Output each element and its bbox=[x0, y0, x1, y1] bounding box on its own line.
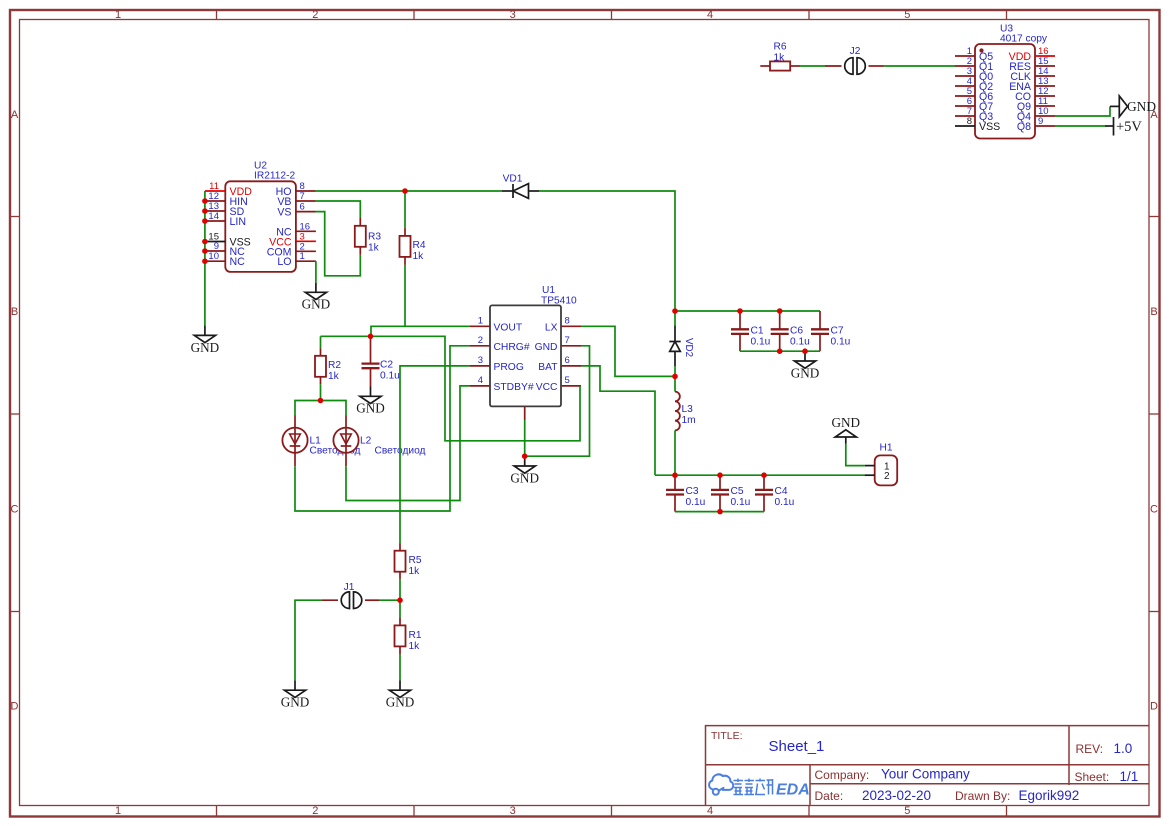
svg-text:A: A bbox=[11, 109, 19, 121]
svg-text:Egorik992: Egorik992 bbox=[1019, 788, 1080, 803]
IC U1 body bbox=[490, 305, 561, 406]
label J1 bbox=[344, 582, 355, 593]
U1 bottom pin bbox=[524, 406, 526, 420]
svg-text:2: 2 bbox=[884, 471, 890, 482]
svg-text:R3: R3 bbox=[368, 232, 381, 243]
label R1 1k bbox=[409, 630, 422, 652]
svg-text:5: 5 bbox=[565, 375, 570, 386]
label L2 Светодиод bbox=[360, 436, 426, 457]
H1 pin numbers bbox=[884, 461, 890, 482]
U3 right pin numbers bbox=[1038, 46, 1049, 127]
label C1 0.1u bbox=[751, 326, 771, 348]
svg-text:VCC: VCC bbox=[536, 382, 558, 393]
label U1 TP5410 bbox=[541, 285, 577, 307]
ground GND above H1 bbox=[832, 415, 861, 444]
label VD1 bbox=[503, 174, 523, 185]
svg-text:GND: GND bbox=[832, 415, 861, 430]
svg-text:IR2112-2: IR2112-2 bbox=[254, 170, 295, 181]
svg-text:1: 1 bbox=[300, 251, 305, 262]
junction dot VD2 anode node bbox=[672, 374, 678, 380]
svg-text:0.1u: 0.1u bbox=[380, 370, 400, 381]
capacitor C5 bbox=[711, 475, 729, 511]
connector J1 bbox=[322, 592, 380, 609]
H1 pin stubs bbox=[865, 466, 875, 476]
resistor R6 bbox=[760, 61, 800, 70]
svg-text:GND: GND bbox=[510, 470, 539, 485]
capacitor C7 bbox=[811, 311, 829, 351]
ground GND under U2 LO bbox=[302, 292, 331, 311]
svg-text:1k: 1k bbox=[328, 371, 340, 382]
U1 right pin names bbox=[535, 322, 559, 393]
svg-text:U1: U1 bbox=[542, 285, 555, 296]
svg-text:J2: J2 bbox=[850, 46, 861, 57]
wire C3 C5 C4 bottom rail bbox=[675, 511, 764, 513]
U1 right pin numbers bbox=[565, 315, 570, 386]
ground GND under U1 bbox=[510, 456, 539, 485]
svg-text:C2: C2 bbox=[380, 359, 393, 370]
svg-text:6: 6 bbox=[565, 355, 570, 366]
svg-text:GND: GND bbox=[356, 401, 385, 416]
LED L2 bbox=[333, 416, 358, 467]
junction dot C4 top bbox=[761, 472, 767, 478]
U3 left pin names bbox=[979, 51, 1000, 133]
wire R2 top bbox=[320, 336, 322, 348]
wire VD2 node to L3 bbox=[674, 376, 676, 391]
U3 right pin stubs 16-9 bbox=[1035, 56, 1055, 126]
label VD2 bbox=[683, 338, 694, 357]
svg-text:9: 9 bbox=[1038, 116, 1043, 127]
wire U3 Q8 to +5V bbox=[1055, 125, 1105, 127]
svg-text:C7: C7 bbox=[831, 326, 844, 337]
power flag +5V bbox=[1105, 117, 1142, 136]
svg-text:8: 8 bbox=[565, 315, 570, 326]
resistor R3 bbox=[355, 217, 366, 254]
wire VD1 to node top-right bbox=[539, 191, 675, 325]
svg-text:GND: GND bbox=[386, 695, 415, 710]
wire R4 top bbox=[404, 191, 406, 228]
svg-text:7: 7 bbox=[565, 335, 570, 346]
wire U3 Q4 to GND bbox=[1055, 106, 1110, 116]
junction dot C6 top bbox=[777, 308, 783, 314]
svg-text:VOUT: VOUT bbox=[494, 322, 523, 333]
wire R1 to GND bbox=[399, 654, 401, 680]
svg-text:BAT: BAT bbox=[538, 362, 558, 373]
junction dot C1 top bbox=[737, 308, 743, 314]
svg-text:1m: 1m bbox=[682, 415, 696, 426]
resistor R4 bbox=[400, 228, 411, 265]
title block Company bbox=[815, 767, 971, 782]
U1 left pin stubs bbox=[470, 326, 490, 386]
connector H1 body bbox=[875, 455, 898, 485]
svg-text:10: 10 bbox=[208, 251, 219, 262]
svg-text:H1: H1 bbox=[879, 443, 892, 454]
svg-text:C: C bbox=[11, 503, 19, 515]
svg-text:4: 4 bbox=[707, 805, 713, 817]
title block frame bbox=[706, 726, 1149, 806]
ground GND under U2 left bbox=[191, 335, 220, 354]
junction dot caps GND stem bbox=[802, 348, 808, 354]
junction dot C6 bottom bbox=[777, 348, 783, 354]
inductor L3 bbox=[675, 392, 680, 431]
title block TITLE label bbox=[711, 730, 743, 742]
ground GND bottom left bbox=[281, 680, 310, 709]
svg-text:B: B bbox=[1150, 306, 1157, 318]
ground GND under C2 bbox=[356, 387, 385, 416]
svg-text:VS: VS bbox=[277, 207, 291, 219]
svg-text:Sheet_1: Sheet_1 bbox=[769, 738, 825, 755]
IC U3 body bbox=[975, 44, 1035, 139]
U2 right pin names bbox=[267, 186, 292, 268]
wire LED anode rail bbox=[295, 401, 346, 416]
junction dot R4 top bbox=[402, 188, 408, 194]
U1 left pin numbers bbox=[478, 315, 483, 386]
junction dot L3 bottom bbox=[672, 472, 678, 478]
wire R3 to U2 VS bbox=[316, 212, 360, 276]
svg-text:GND: GND bbox=[791, 365, 820, 380]
svg-text:C1: C1 bbox=[751, 326, 764, 337]
svg-text:VD1: VD1 bbox=[503, 174, 523, 185]
svg-text:VD2: VD2 bbox=[683, 338, 694, 357]
svg-text:GND: GND bbox=[191, 340, 220, 355]
svg-text:PROG: PROG bbox=[494, 362, 524, 373]
ground GND under R1 bbox=[386, 680, 415, 709]
label R4 1k bbox=[413, 240, 426, 262]
svg-text:Date:: Date: bbox=[815, 789, 844, 803]
wire U2 LO to GND bbox=[315, 261, 317, 292]
title block Date / Drawn By bbox=[815, 788, 1080, 803]
junction dot C5 top bbox=[717, 472, 723, 478]
svg-text:TP5410: TP5410 bbox=[541, 295, 577, 306]
svg-text:Company:: Company: bbox=[815, 768, 870, 782]
wire C3 C5 C4 top rail to H1 pin2 bbox=[655, 474, 865, 476]
capacitor C3 bbox=[666, 475, 684, 511]
wire U1 PROG to R5 bbox=[400, 366, 470, 544]
capacitor C2 bbox=[362, 336, 380, 386]
power flag GND right bbox=[1110, 96, 1156, 117]
svg-text:0.1u: 0.1u bbox=[775, 497, 795, 508]
svg-text:1k: 1k bbox=[368, 243, 380, 254]
svg-text:C5: C5 bbox=[731, 486, 744, 497]
svg-text:0.1u: 0.1u bbox=[731, 497, 751, 508]
svg-text:1: 1 bbox=[478, 315, 483, 326]
svg-text:2: 2 bbox=[312, 9, 318, 21]
svg-text:0.1u: 0.1u bbox=[751, 337, 771, 348]
svg-text:2: 2 bbox=[478, 335, 483, 346]
wire U2 VB to R3 bbox=[316, 201, 360, 217]
label C2 0.1u bbox=[380, 359, 400, 381]
svg-text:14: 14 bbox=[208, 211, 219, 222]
junction dot J1 R5 R1 bbox=[397, 597, 403, 603]
label J2 bbox=[850, 46, 861, 57]
svg-text:6: 6 bbox=[300, 202, 305, 213]
resistor R5 bbox=[395, 544, 406, 579]
U2 left pin numbers bbox=[208, 181, 219, 262]
svg-text:C3: C3 bbox=[686, 486, 699, 497]
svg-text:TITLE:: TITLE: bbox=[711, 730, 743, 742]
label L1 Светодиод bbox=[310, 436, 361, 457]
svg-text:R2: R2 bbox=[328, 360, 341, 371]
svg-text:3: 3 bbox=[510, 9, 516, 21]
capacitor C6 bbox=[771, 311, 789, 351]
svg-text:EDA: EDA bbox=[776, 782, 810, 799]
svg-text:R4: R4 bbox=[413, 240, 426, 251]
svg-text:+5V: +5V bbox=[1116, 119, 1142, 135]
junction dot node VD2 top bbox=[672, 308, 678, 314]
ground GND under C6 C7 bbox=[791, 351, 820, 380]
wire U1 LX to VD2 anode bbox=[581, 326, 675, 376]
svg-text:GND: GND bbox=[302, 297, 331, 312]
svg-text:C6: C6 bbox=[790, 326, 803, 337]
svg-text:R1: R1 bbox=[409, 630, 422, 641]
wire C1 C6 C7 top rail bbox=[675, 310, 820, 312]
svg-text:B: B bbox=[11, 306, 18, 318]
label C5 0.1u bbox=[731, 486, 751, 508]
svg-text:R6: R6 bbox=[774, 42, 787, 53]
svg-text:1.0: 1.0 bbox=[1114, 741, 1133, 756]
svg-text:L3: L3 bbox=[682, 404, 694, 415]
svg-text:1k: 1k bbox=[409, 566, 421, 577]
label U2 IR2112-2 bbox=[254, 161, 295, 182]
label L3 1m bbox=[682, 404, 696, 426]
svg-text:3: 3 bbox=[478, 355, 483, 366]
label U3 4017 copy bbox=[1000, 24, 1048, 45]
U2 right pin numbers bbox=[300, 181, 311, 262]
svg-text:1k: 1k bbox=[413, 251, 425, 262]
svg-text:0.1u: 0.1u bbox=[831, 337, 851, 348]
title block REV bbox=[1076, 741, 1133, 756]
svg-text:LX: LX bbox=[545, 322, 558, 333]
svg-text:LO: LO bbox=[277, 256, 291, 268]
label C6 0.1u bbox=[790, 326, 810, 348]
junction dot C2 top bbox=[368, 334, 374, 340]
junction dot C5 bottom bbox=[717, 509, 723, 515]
svg-text:2: 2 bbox=[312, 805, 318, 817]
svg-text:STDBY#: STDBY# bbox=[494, 382, 534, 393]
svg-text:2023-02-20: 2023-02-20 bbox=[862, 788, 931, 803]
wire J1 right to node bbox=[380, 599, 400, 601]
svg-text:Sheet:: Sheet: bbox=[1075, 770, 1110, 784]
label R6 1k bbox=[774, 42, 787, 64]
svg-text:5: 5 bbox=[904, 805, 910, 817]
svg-text:GND: GND bbox=[535, 342, 558, 353]
wire J1 left to GND bbox=[295, 600, 322, 680]
wire U1 STDBY# to L2 bbox=[346, 386, 470, 501]
wire R5 to J1 node bbox=[399, 579, 401, 600]
wire R6 to J2 bbox=[800, 65, 825, 67]
label H1 bbox=[879, 443, 892, 454]
junction dot U1 GND bbox=[522, 453, 528, 459]
svg-text:NC: NC bbox=[230, 256, 246, 268]
svg-text:1: 1 bbox=[115, 9, 121, 21]
U2 left pin stubs bbox=[205, 191, 225, 261]
svg-text:C4: C4 bbox=[775, 486, 788, 497]
IC U2 body bbox=[225, 181, 296, 272]
U1 left pin names bbox=[494, 322, 534, 393]
label R3 1k bbox=[368, 232, 381, 254]
svg-text:7: 7 bbox=[300, 191, 305, 202]
wire U1 VOUT bbox=[371, 326, 470, 336]
diode VD2 bbox=[669, 325, 680, 366]
junction dot R2 bottom bbox=[318, 398, 324, 404]
svg-text:1k: 1k bbox=[774, 53, 786, 64]
svg-text:C: C bbox=[1150, 503, 1158, 515]
label R5 1k bbox=[409, 555, 422, 577]
wire U1 BAT to C-rail bbox=[581, 366, 655, 475]
label C7 0.1u bbox=[831, 326, 851, 348]
svg-text:GND: GND bbox=[281, 695, 310, 710]
svg-text:0.1u: 0.1u bbox=[686, 497, 706, 508]
U3 left pin numbers bbox=[967, 46, 972, 127]
svg-text:LIN: LIN bbox=[230, 216, 247, 228]
svg-text:1k: 1k bbox=[409, 641, 421, 652]
capacitor C4 bbox=[755, 475, 773, 511]
svg-text:J1: J1 bbox=[344, 582, 355, 593]
svg-text:GND: GND bbox=[1127, 99, 1156, 114]
svg-text:Q8: Q8 bbox=[1017, 121, 1031, 133]
svg-text:5: 5 bbox=[904, 9, 910, 21]
svg-text:Drawn By:: Drawn By: bbox=[955, 789, 1010, 803]
wire VD2 to LX node bbox=[674, 366, 676, 376]
svg-text:4: 4 bbox=[707, 9, 713, 21]
wire U1 bottom to GND bbox=[524, 420, 526, 456]
U1 right pin stubs bbox=[561, 326, 581, 386]
wire J2 to U3 pin 2 bbox=[884, 65, 955, 67]
title block Sheet 1/1 bbox=[1075, 769, 1139, 784]
connector J2 bbox=[825, 58, 884, 75]
wire L3 to C-rail bbox=[674, 430, 676, 475]
wire H1 pin1 to GND bbox=[846, 444, 865, 466]
wire C1 C6 C7 bottom rail bbox=[740, 350, 820, 352]
wire R4 bottom bbox=[404, 265, 406, 326]
wire U2 left pins bus to GND bbox=[204, 191, 206, 335]
svg-text:VSS: VSS bbox=[979, 121, 1000, 133]
svg-text:4: 4 bbox=[478, 375, 483, 386]
wire R2 bottom bbox=[320, 384, 322, 400]
svg-text:D: D bbox=[1150, 701, 1158, 713]
label R2 1k bbox=[328, 360, 341, 382]
wire U1 GND pin7 bbox=[525, 346, 590, 456]
svg-text:1: 1 bbox=[115, 805, 121, 817]
resistor R1 bbox=[395, 600, 406, 654]
wire VOUT horizontal bbox=[321, 336, 581, 441]
JLCEDA logo bbox=[709, 774, 810, 798]
junction dot group U2 left pins bbox=[202, 198, 208, 264]
svg-text:3: 3 bbox=[510, 805, 516, 817]
U3 right pin names bbox=[1009, 51, 1032, 133]
label C3 0.1u bbox=[686, 486, 706, 508]
svg-text:4017 copy: 4017 copy bbox=[1000, 34, 1048, 45]
U3 pin-1 mark bbox=[979, 48, 983, 52]
wire U2 HO to VD1 bbox=[316, 190, 502, 192]
svg-text:L2: L2 bbox=[360, 436, 372, 447]
diode VD1 bbox=[502, 184, 539, 199]
title block sheet name Sheet_1 bbox=[769, 738, 825, 755]
U2 left pin names bbox=[230, 186, 253, 268]
capacitor C1 bbox=[731, 311, 749, 351]
svg-text:8: 8 bbox=[967, 116, 972, 127]
svg-text:0.1u: 0.1u bbox=[790, 337, 810, 348]
svg-text:1/1: 1/1 bbox=[1120, 769, 1139, 784]
resistor R2 bbox=[315, 348, 326, 384]
LED L1 bbox=[282, 416, 307, 467]
wire U1 CHRG# to L1 bbox=[295, 346, 470, 511]
svg-text:REV:: REV: bbox=[1076, 742, 1104, 756]
label C4 0.1u bbox=[775, 486, 795, 508]
svg-text:CHRG#: CHRG# bbox=[494, 342, 530, 353]
U2 right pin stubs bbox=[296, 191, 316, 261]
U3 left pin stubs 1-8 bbox=[955, 56, 975, 126]
svg-text:R5: R5 bbox=[409, 555, 422, 566]
svg-text:Your Company: Your Company bbox=[881, 767, 970, 782]
svg-text:D: D bbox=[11, 701, 19, 713]
